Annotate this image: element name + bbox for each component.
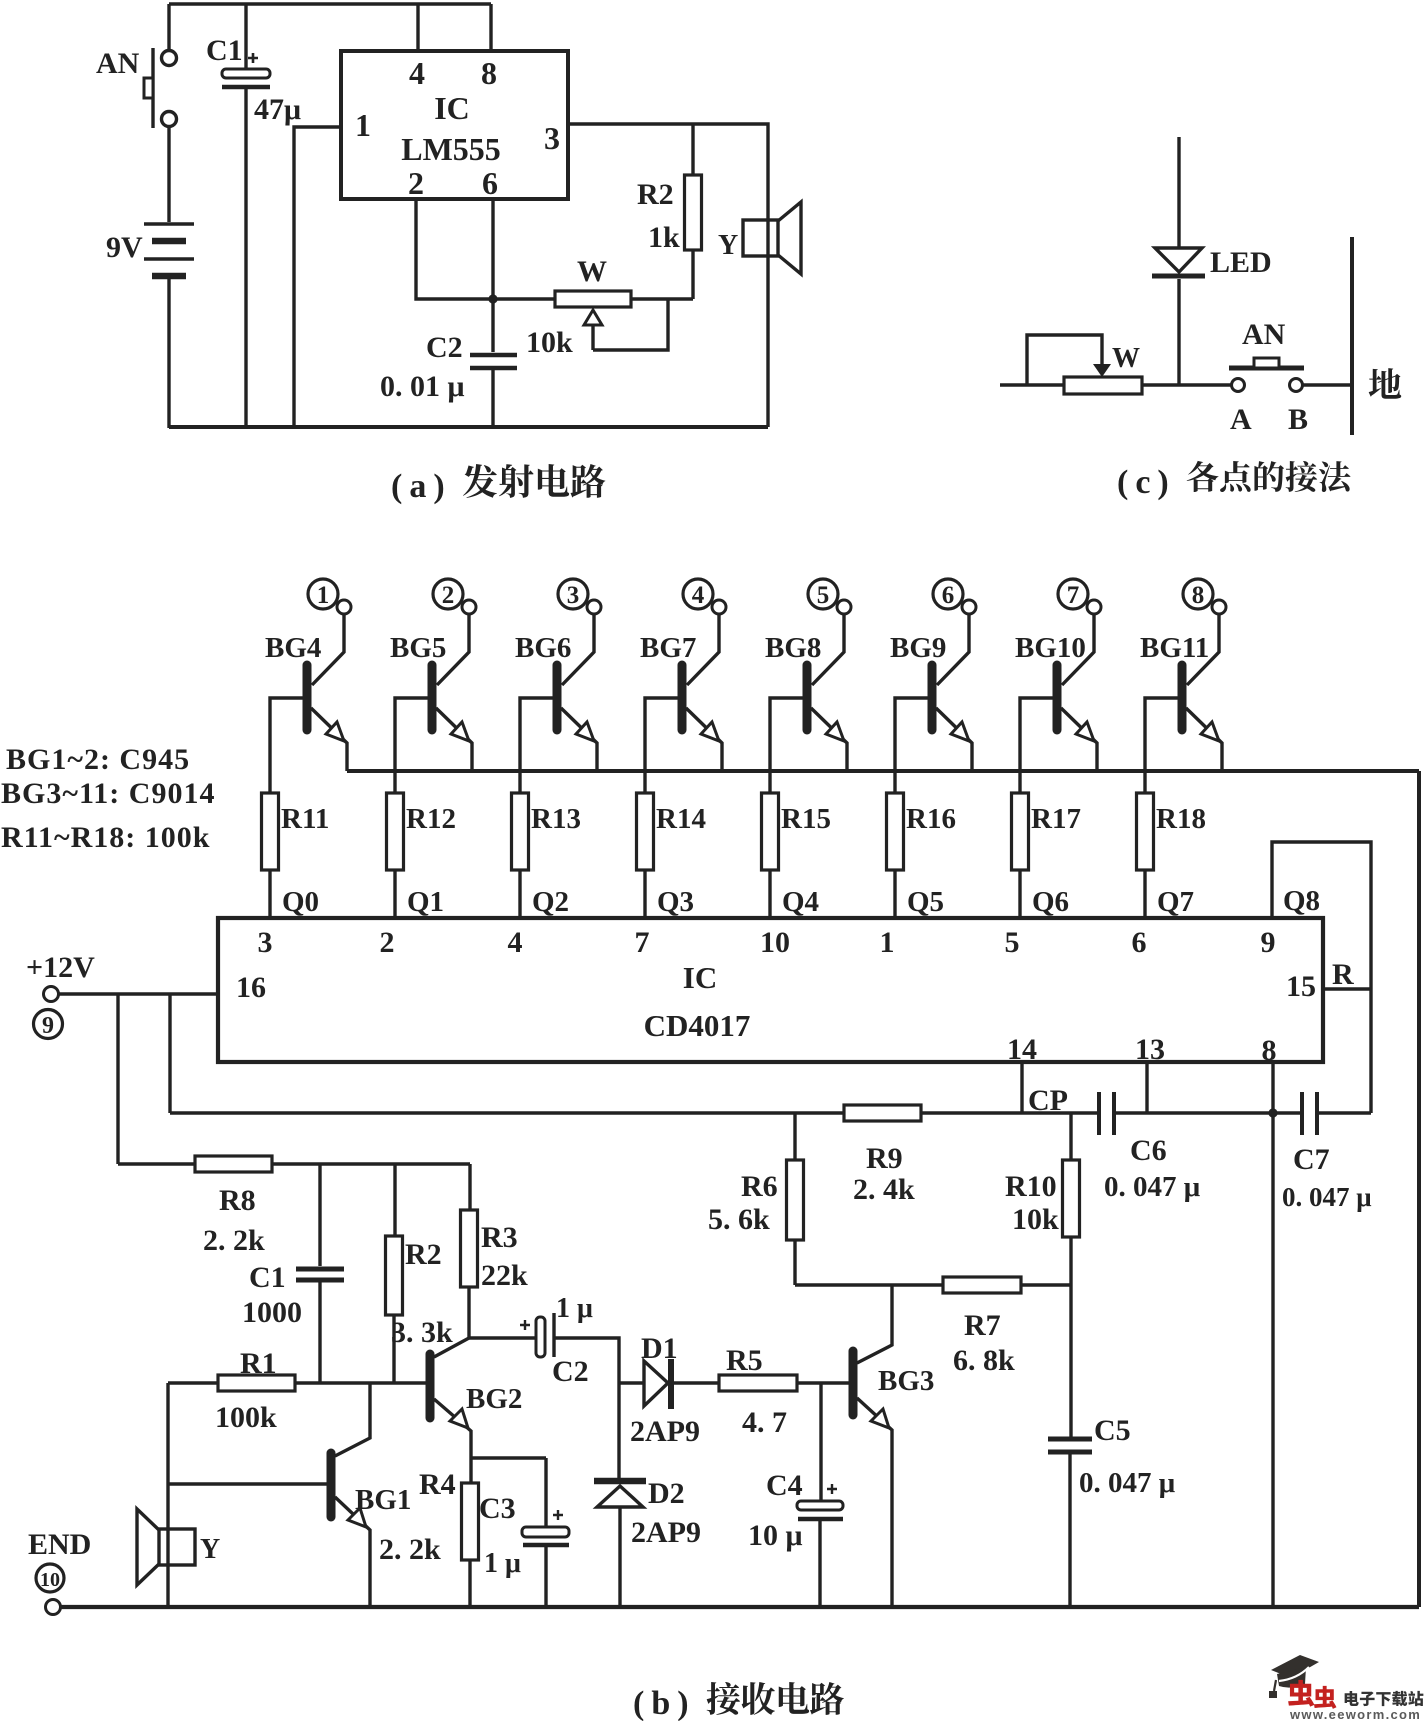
svg-text:1 μ: 1 μ (556, 1293, 593, 1324)
svg-text:LED: LED (1210, 246, 1272, 279)
resistor R18 100k (1137, 793, 1154, 870)
diode D2 2AP9 (594, 1481, 646, 1507)
wire R16 to pin Q5 (893, 870, 896, 918)
svg-text:10k: 10k (526, 326, 573, 359)
wire R6 to R7 (795, 1283, 943, 1286)
watermark dian-zi-xia-zai-zhan text (1345, 1691, 1359, 1706)
transistor BG9 (932, 600, 976, 771)
svg-text:9: 9 (42, 1013, 54, 1039)
terminal circled 2 (433, 579, 463, 609)
svg-text:C2: C2 (426, 331, 463, 364)
wire pin15 stub (1323, 987, 1371, 990)
svg-text:+12V: +12V (26, 951, 95, 984)
svg-text:C1: C1 (206, 34, 243, 67)
resistor R9 2.4k (844, 1105, 921, 1121)
wire BG2 collector to C2 (469, 1336, 538, 1339)
wire pin6 to C2 (491, 199, 494, 352)
wire BG5 base to R12 (395, 698, 428, 793)
terminal circled 9 (34, 1010, 63, 1040)
transistor BG8 (807, 600, 851, 771)
svg-text:BG1~2: C945: BG1~2: C945 (6, 743, 190, 776)
resistor R11 100k (262, 793, 279, 870)
svg-text:IC: IC (434, 90, 470, 126)
svg-text:3. 3k: 3. 3k (391, 1316, 453, 1349)
svg-text:BG3~11: C9014: BG3~11: C9014 (1, 777, 215, 810)
svg-text:R8: R8 (219, 1184, 256, 1217)
svg-text:4: 4 (409, 55, 425, 91)
resistor R2 1k (685, 175, 702, 250)
svg-text:Q1: Q1 (407, 886, 444, 918)
diode D1 2AP9 (644, 1359, 671, 1409)
wire R18 to pin Q7 (1143, 870, 1146, 918)
transistor BG7 (682, 600, 726, 771)
svg-text:6: 6 (942, 582, 955, 609)
transistor BG6 (557, 600, 601, 771)
svg-text:4: 4 (692, 582, 705, 609)
terminal circled 10 (36, 1564, 64, 1592)
wire C6 to C7 (1114, 1111, 1302, 1114)
resistor R6 5.6k (787, 1160, 804, 1240)
svg-text:2. 2k: 2. 2k (379, 1533, 441, 1566)
svg-text:IC: IC (683, 960, 717, 995)
wire top supply rail (a) (169, 2, 491, 6)
svg-text:14: 14 (1007, 1033, 1037, 1066)
svg-text:C7: C7 (1293, 1143, 1330, 1176)
svg-text:R3: R3 (481, 1221, 518, 1254)
svg-text:7: 7 (1067, 582, 1080, 609)
wire BG9 base to R16 (895, 698, 928, 793)
svg-text:R16: R16 (906, 803, 956, 835)
ground line (c) (1350, 237, 1354, 435)
svg-text:(b): (b) (633, 1685, 696, 1721)
wire rail mid (c) (1142, 383, 1231, 386)
svg-text:0. 047 μ: 0. 047 μ (1282, 1182, 1372, 1212)
op-amp U1 IC LM555 box (341, 51, 568, 199)
terminal +12V (44, 987, 59, 1002)
svg-text:5: 5 (817, 582, 830, 609)
resistor R12 100k (387, 793, 404, 870)
capacitor C5 0.047u (1048, 1439, 1092, 1452)
svg-text:4: 4 (508, 926, 523, 959)
wire pin8 down (1271, 1062, 1274, 1113)
capacitor C1 1000 (296, 1269, 344, 1280)
svg-text:Y: Y (200, 1534, 220, 1565)
terminal circled 5 (808, 579, 838, 609)
resistor R1 100k (218, 1375, 295, 1391)
svg-text:2AP9: 2AP9 (631, 1516, 701, 1549)
svg-text:1: 1 (880, 926, 895, 959)
svg-text:R15: R15 (781, 803, 831, 835)
wire battery to ground rail (167, 279, 170, 428)
svg-text:R5: R5 (726, 1344, 763, 1377)
svg-text:0. 047 μ: 0. 047 μ (1079, 1467, 1176, 1499)
wire rail left (c) (1000, 383, 1064, 386)
wire to C1 (rx) (318, 1164, 321, 1266)
svg-text:D1: D1 (641, 1332, 678, 1365)
wire C5 to ground rail (1068, 1452, 1071, 1607)
svg-text:1000: 1000 (242, 1296, 302, 1329)
capacitor C2 0.01u (470, 355, 517, 368)
wire to R3 (468, 1164, 471, 1210)
svg-text:R11: R11 (281, 803, 329, 835)
svg-text:R13: R13 (531, 803, 581, 835)
svg-text:8: 8 (481, 55, 497, 91)
transistor BG4 (307, 600, 351, 771)
svg-text:8: 8 (1192, 582, 1205, 609)
node pin8/C7 junction (1268, 1108, 1277, 1117)
battery 9V (144, 224, 194, 276)
wire BG11 base to R18 (1145, 698, 1178, 793)
svg-text:C6: C6 (1130, 1134, 1167, 1167)
wire emitter node to C3 (471, 1456, 546, 1459)
wire R14 to pin Q3 (643, 870, 646, 918)
wire R2 to base line (392, 1315, 395, 1383)
wire BG1 base to speaker line (168, 1482, 327, 1485)
resistor R7 6.8k (943, 1277, 1021, 1293)
resistor R10 10k (1063, 1160, 1080, 1237)
svg-text:9V: 9V (106, 231, 143, 264)
svg-text:2: 2 (380, 926, 395, 959)
svg-text:BG3: BG3 (878, 1365, 934, 1397)
terminal circled 6 (933, 579, 963, 609)
transistor BG1 (331, 1383, 370, 1607)
svg-text:10: 10 (40, 1569, 60, 1591)
svg-text:3: 3 (567, 582, 580, 609)
capacitor C3 1u (522, 1510, 569, 1545)
svg-text:R6: R6 (741, 1170, 778, 1203)
svg-text:2: 2 (408, 165, 424, 201)
wire node to D2 (617, 1383, 620, 1478)
svg-text:4. 7: 4. 7 (742, 1406, 787, 1439)
svg-text:A: A (1230, 403, 1252, 436)
svg-text:R2: R2 (405, 1238, 442, 1271)
svg-text:D2: D2 (648, 1477, 685, 1510)
svg-text:10: 10 (760, 926, 790, 959)
pushbutton AN (c) (1229, 358, 1304, 392)
caption (c) ge-dian-de-jie-fa (1187, 461, 1219, 492)
svg-text:CD4017: CD4017 (644, 1008, 751, 1043)
svg-text:Q6: Q6 (1032, 886, 1069, 918)
wire R17 to pin Q6 (1018, 870, 1021, 918)
svg-text:16: 16 (236, 971, 266, 1004)
svg-text:Y: Y (718, 230, 738, 261)
svg-text:C1: C1 (249, 1261, 286, 1294)
svg-text:AN: AN (96, 47, 140, 80)
wire pin3 to speaker Y (568, 124, 768, 222)
svg-text:Q7: Q7 (1157, 886, 1194, 918)
svg-text:BG6: BG6 (515, 632, 571, 664)
wire to C3 (544, 1458, 547, 1527)
svg-text:6: 6 (482, 165, 498, 201)
wire R4 to ground rail (468, 1560, 471, 1607)
wire R12 to pin Q1 (393, 870, 396, 918)
svg-text:W: W (1112, 343, 1140, 374)
svg-text:100k: 100k (215, 1401, 277, 1434)
resistor R15 100k (762, 793, 779, 870)
wire BG7 base to R14 (645, 698, 678, 793)
wire BG10 base to R17 (1020, 698, 1053, 793)
wire to D1 (619, 1381, 644, 1384)
svg-text:BG7: BG7 (640, 632, 696, 664)
wire LED anode (1177, 137, 1180, 249)
wire R11 to pin Q0 (268, 870, 271, 918)
label di (ground) (1369, 368, 1402, 399)
svg-text:Q2: Q2 (532, 886, 569, 918)
svg-text:C4: C4 (766, 1469, 803, 1502)
capacitor C4 10u (797, 1484, 843, 1519)
node pin2/pin6/C2 junction (488, 294, 497, 303)
wire C3 to ground rail (544, 1545, 547, 1607)
svg-text:Q5: Q5 (907, 886, 944, 918)
svg-text:6: 6 (1132, 926, 1147, 959)
wire left to R1 (168, 1381, 218, 1384)
transistor BG2 (430, 1338, 471, 1483)
wire C1 to bottom rail (244, 89, 247, 427)
wire bottom rail (a) (169, 425, 768, 429)
wire left vertical to ground (166, 1383, 169, 1607)
wire pin14 CP (1020, 1062, 1023, 1113)
wire BG4 base to R11 (270, 698, 303, 793)
wire ground rail (b) (61, 1605, 1419, 1609)
wire BG8 base to R15 (770, 698, 803, 793)
svg-text:0. 047 μ: 0. 047 μ (1104, 1171, 1201, 1203)
resistor R16 100k (887, 793, 904, 870)
speaker Y (a) (743, 202, 801, 274)
wire C4 to ground rail (818, 1519, 821, 1607)
svg-text:1k: 1k (648, 221, 680, 254)
wire pin9 Q8 to R pin15 loop (1272, 842, 1371, 1113)
svg-text:9: 9 (1261, 926, 1276, 959)
caption (b) jie-shou-dian-lu (707, 1682, 740, 1715)
svg-text:AN: AN (1242, 318, 1286, 351)
svg-text:6. 8k: 6. 8k (953, 1344, 1015, 1377)
terminal circled 8 (1183, 579, 1213, 609)
wire LED to rail (c) (1177, 279, 1180, 385)
wire line to R10 (1069, 1113, 1072, 1160)
svg-text:W: W (577, 255, 607, 288)
wire C2 to bottom rail (a) (491, 368, 494, 427)
resistor R4 2.2k (462, 1483, 479, 1560)
capacitor C1 47u (222, 53, 270, 87)
svg-text:R18: R18 (1156, 803, 1206, 835)
svg-text:22k: 22k (481, 1259, 528, 1292)
svg-text:2AP9: 2AP9 (630, 1415, 700, 1448)
potentiometer W (c) (1064, 377, 1142, 394)
wire bus right return (1417, 771, 1421, 1607)
wire R3 to BG2 collector (467, 1287, 470, 1338)
wire C1 to base line (318, 1280, 321, 1383)
svg-text:(a): (a) (391, 468, 452, 505)
svg-text:R2: R2 (637, 178, 674, 211)
resistor R14 100k (637, 793, 654, 870)
wire D1 to R5 (674, 1381, 719, 1384)
svg-text:13: 13 (1135, 1033, 1165, 1066)
svg-text:BG5: BG5 (390, 632, 446, 664)
wire pin4 to rail (416, 4, 419, 51)
svg-text:BG9: BG9 (890, 632, 946, 664)
svg-text:R14: R14 (656, 803, 706, 835)
svg-text:2. 4k: 2. 4k (853, 1173, 915, 1206)
wire W wiper return (593, 299, 668, 350)
wire D2 to ground rail (618, 1508, 621, 1607)
wire 12V to R9 (170, 1111, 844, 1114)
wire W wiper bracket (c) (1027, 335, 1102, 385)
svg-text:C2: C2 (552, 1355, 589, 1388)
svg-text:2. 2k: 2. 2k (203, 1224, 265, 1257)
transistor BG3 (853, 1285, 892, 1607)
wire pin13 down (1145, 1062, 1148, 1113)
svg-text:(c): (c) (1117, 464, 1176, 501)
potentiometer W 10k (555, 291, 631, 350)
speaker Y (b) (137, 1509, 195, 1585)
capacitor C7 0.047u (1302, 1092, 1317, 1135)
terminal circled 4 (683, 579, 713, 609)
resistor R2 3.3k (386, 1236, 403, 1315)
svg-text:3: 3 (544, 120, 560, 156)
svg-text:BG1: BG1 (355, 1484, 411, 1516)
wire to R8 (118, 1162, 195, 1165)
svg-text:R11~R18: 100k: R11~R18: 100k (1, 821, 210, 854)
wire pot to R2 bottom (631, 297, 693, 300)
resistor R13 100k (512, 793, 529, 870)
svg-text:47μ: 47μ (254, 93, 301, 126)
wire pin2 to node (416, 199, 493, 299)
svg-text:END: END (28, 1528, 91, 1561)
svg-text:2: 2 (442, 582, 455, 609)
IC CD4017 box (218, 918, 1323, 1062)
LED (1152, 248, 1205, 276)
wire R9 to CP/C6 (921, 1111, 1099, 1114)
transistor BG11 (1182, 600, 1226, 771)
wire speaker to bottom rail (766, 222, 769, 427)
wire R13 to pin Q2 (518, 870, 521, 918)
svg-text:10 μ: 10 μ (748, 1519, 803, 1552)
svg-text:BG8: BG8 (765, 632, 821, 664)
wire pin3 line to R2 (691, 124, 694, 175)
wire to R2 (rx) (393, 1164, 396, 1236)
svg-text:3: 3 (258, 926, 273, 959)
svg-text:R4: R4 (419, 1468, 456, 1501)
wire +12V tap to R9 line (168, 994, 171, 1113)
svg-text:BG2: BG2 (466, 1383, 522, 1415)
wire R8 to R3 branch (272, 1162, 470, 1165)
svg-text:R1: R1 (240, 1347, 277, 1380)
svg-text:1 μ: 1 μ (484, 1548, 521, 1579)
svg-text:B: B (1288, 403, 1308, 436)
wire C7 to R line (1317, 1111, 1371, 1114)
svg-text:BG11: BG11 (1140, 632, 1209, 664)
capacitor C2 1u (520, 1313, 554, 1357)
wire pin8 to ground rail (1271, 1113, 1274, 1607)
svg-text:R7: R7 (964, 1309, 1001, 1342)
wire pin8 to rail (489, 4, 492, 51)
resistor R3 22k (461, 1210, 478, 1287)
svg-text:5. 6k: 5. 6k (708, 1203, 770, 1236)
svg-text:10k: 10k (1012, 1203, 1059, 1236)
svg-text:Q4: Q4 (782, 886, 819, 918)
svg-text:Q3: Q3 (657, 886, 694, 918)
svg-text:7: 7 (635, 926, 650, 959)
wire C2 to D1 node (554, 1338, 619, 1383)
svg-text:5: 5 (1005, 926, 1020, 959)
transistor BG5 (432, 600, 476, 771)
watermark graduation cap logo (1269, 1655, 1319, 1698)
terminal circled 1 (308, 579, 338, 609)
wire BG6 base to R13 (520, 698, 553, 793)
svg-text:BG10: BG10 (1015, 632, 1086, 664)
resistor R17 100k (1012, 793, 1029, 870)
terminal circled 7 (1058, 579, 1088, 609)
wire +12V to pin16 (59, 992, 218, 995)
svg-text:C3: C3 (479, 1492, 516, 1525)
svg-text:Q0: Q0 (282, 886, 319, 918)
svg-text:1: 1 (317, 582, 330, 609)
terminal circled 3 (558, 579, 588, 609)
wire line to R6 (793, 1113, 796, 1160)
svg-text:0. 01 μ: 0. 01 μ (380, 370, 465, 403)
wire R7 to R10 node (1021, 1283, 1071, 1286)
wire R5 to BG3 base (797, 1381, 849, 1384)
svg-text:15: 15 (1286, 970, 1316, 1003)
svg-text:C5: C5 (1094, 1414, 1131, 1447)
wire pin1 to ground (294, 127, 341, 427)
wire R10 to R7 line to C5 (1069, 1237, 1072, 1437)
wire R2 to pot node (691, 250, 694, 299)
wire switch to battery (167, 126, 170, 222)
wire rail to switch AN (167, 4, 170, 51)
wire R1 to BG2 base (295, 1381, 427, 1384)
caption (a) fa-she-dian-lu (463, 464, 497, 498)
resistor R8 2.2k (195, 1156, 272, 1172)
svg-text:R10: R10 (1005, 1170, 1057, 1203)
svg-text:LM555: LM555 (401, 131, 501, 167)
arrow W wiper (c) (1093, 364, 1111, 377)
svg-text:1: 1 (355, 107, 371, 143)
svg-text:BG4: BG4 (265, 632, 321, 664)
svg-text:R12: R12 (406, 803, 456, 835)
svg-text:R9: R9 (866, 1142, 903, 1175)
svg-text:Q8: Q8 (1283, 885, 1320, 917)
svg-text:R17: R17 (1031, 803, 1081, 835)
terminal END (46, 1600, 61, 1615)
svg-text:R: R (1332, 958, 1354, 991)
watermark chong-chong red logo (1288, 1680, 1314, 1707)
pushbutton switch AN (144, 48, 177, 128)
wire node to pot W (493, 297, 555, 300)
svg-text:CP: CP (1028, 1084, 1068, 1117)
wire R6 to R7 line (793, 1240, 796, 1285)
wire node to C4 (819, 1383, 822, 1501)
transistor BG10 (1057, 600, 1101, 771)
wire rail to C1 (244, 4, 247, 69)
wire R15 to pin Q4 (768, 870, 771, 918)
capacitor C6 0.047u (1099, 1092, 1114, 1135)
wire rail right (c) (1303, 383, 1352, 386)
wire emitter bus (347, 769, 1419, 773)
wire +12V tap to R8 (116, 994, 119, 1164)
svg-text:www.eeworm.com: www.eeworm.com (1289, 1707, 1421, 1721)
resistor R5 4.7 (719, 1375, 797, 1391)
